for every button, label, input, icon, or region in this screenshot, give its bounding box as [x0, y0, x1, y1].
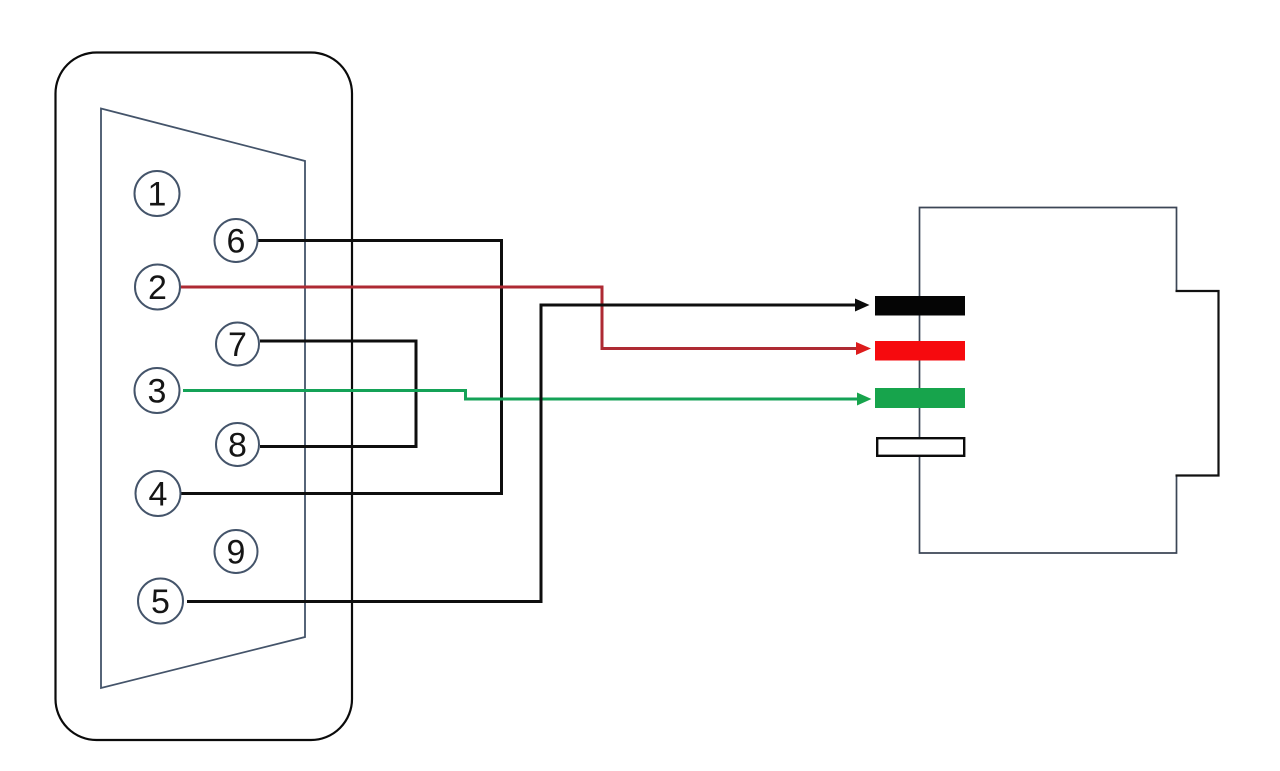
DB9 shell trapezoid [101, 109, 305, 689]
contact block black [875, 296, 965, 316]
svg-text:5: 5 [151, 583, 170, 621]
pin 4 [136, 471, 181, 516]
wire: jumper pin7 to pin8 [260, 341, 416, 447]
pin 3 [135, 368, 180, 413]
svg-text:2: 2 [148, 269, 167, 307]
pin 1 [135, 171, 180, 216]
contact block white [877, 438, 964, 456]
wire: jumper pin6 to pin4 [181, 241, 502, 494]
svg-text:7: 7 [228, 326, 247, 364]
svg-text:8: 8 [228, 427, 247, 465]
arrowhead black [855, 299, 870, 312]
contact block green [875, 388, 965, 408]
wire: pin2 red wire to red contact [181, 287, 856, 349]
pin 6 [215, 219, 258, 262]
pin 7 [216, 323, 259, 366]
svg-text:1: 1 [148, 176, 167, 214]
DB9 connector outer body [56, 53, 353, 741]
pin 8 [216, 423, 259, 466]
svg-text:9: 9 [227, 534, 246, 572]
svg-text:6: 6 [227, 223, 246, 261]
pin 9 [215, 530, 258, 573]
RJ jack body outline [920, 208, 1177, 554]
RJ jack latch notch [1176, 291, 1219, 476]
pin 5 [138, 579, 183, 624]
svg-text:3: 3 [148, 373, 167, 411]
wire: pin3 green wire to green contact [183, 391, 857, 400]
wire: pin5 black wire to black contact [187, 305, 855, 602]
svg-text:4: 4 [149, 476, 168, 514]
arrowhead green [857, 393, 872, 406]
pin 2 [135, 265, 180, 310]
arrowhead red [856, 342, 871, 355]
contact block red [875, 341, 965, 361]
